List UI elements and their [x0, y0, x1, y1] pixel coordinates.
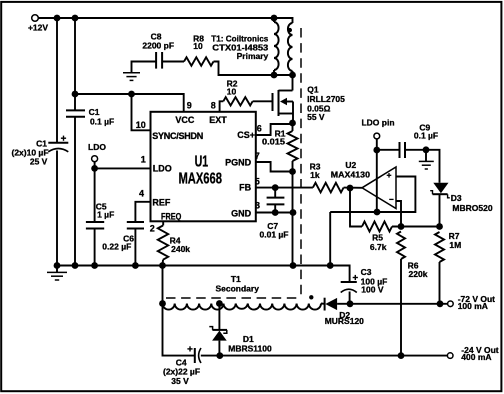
svg-text:LDO: LDO [153, 164, 172, 174]
svg-text:VCC: VCC [175, 115, 195, 125]
svg-text:0.1 µF: 0.1 µF [414, 131, 438, 141]
svg-text:Q1: Q1 [307, 84, 319, 94]
svg-text:2: 2 [150, 224, 155, 234]
svg-text:7: 7 [255, 151, 260, 161]
svg-text:6.7k: 6.7k [370, 242, 387, 252]
svg-text:400 mA: 400 mA [461, 352, 491, 362]
svg-text:MBRS1100: MBRS1100 [228, 344, 272, 354]
svg-text:FREQ: FREQ [161, 211, 181, 221]
svg-text:1M: 1M [449, 240, 461, 250]
svg-text:REF: REF [152, 197, 171, 207]
svg-text:(2x)22 µF: (2x)22 µF [163, 366, 200, 376]
svg-text:0.01 µF: 0.01 µF [260, 229, 289, 239]
svg-text:LDO: LDO [88, 142, 106, 152]
svg-text:10: 10 [136, 120, 146, 130]
svg-text:MBRO520: MBRO520 [452, 203, 492, 213]
svg-text:SYNC/SHDN: SYNC/SHDN [152, 131, 203, 141]
svg-text:100 V: 100 V [361, 285, 384, 295]
svg-text:55 V: 55 V [307, 112, 325, 122]
svg-text:10: 10 [193, 41, 203, 51]
svg-text:IRLL2705: IRLL2705 [307, 94, 345, 104]
svg-text:GND: GND [231, 208, 252, 218]
svg-text:+12V: +12V [28, 22, 48, 32]
svg-text:D3: D3 [451, 193, 462, 203]
svg-text:MAX4130: MAX4130 [331, 169, 370, 179]
svg-text:4: 4 [139, 189, 144, 199]
svg-text:10: 10 [227, 86, 237, 96]
svg-text:CS+: CS+ [237, 130, 255, 140]
svg-text:1k: 1k [310, 170, 320, 180]
svg-text:Primary: Primary [237, 51, 269, 61]
svg-text:35 V: 35 V [171, 376, 189, 386]
svg-text:1: 1 [141, 155, 146, 165]
svg-text:100 mA: 100 mA [458, 301, 488, 311]
svg-text:240k: 240k [171, 244, 190, 254]
svg-text:6: 6 [257, 124, 262, 134]
svg-text:5: 5 [255, 177, 260, 187]
svg-text:FB: FB [239, 183, 251, 193]
svg-text:MURS120: MURS120 [325, 316, 364, 326]
svg-text:0.1 µF: 0.1 µF [90, 117, 114, 127]
svg-text:9: 9 [187, 101, 192, 111]
svg-text:Secondary: Secondary [215, 283, 259, 293]
svg-text:EXT: EXT [209, 115, 227, 125]
svg-text:0.22 µF: 0.22 µF [102, 241, 131, 251]
svg-text:2200 pF: 2200 pF [142, 41, 174, 51]
svg-text:C1: C1 [89, 107, 100, 117]
svg-text:MAX668: MAX668 [178, 171, 222, 188]
svg-text:25 V: 25 V [30, 156, 48, 166]
svg-text:220k: 220k [409, 269, 428, 279]
svg-text:PGND: PGND [225, 158, 252, 168]
svg-text:LDO pin: LDO pin [361, 117, 394, 127]
svg-text:U1: U1 [195, 153, 209, 170]
svg-text:0.015: 0.015 [262, 137, 285, 147]
svg-text:3: 3 [255, 201, 260, 211]
svg-text:1 µF: 1 µF [97, 210, 114, 220]
svg-text:8: 8 [211, 101, 216, 111]
svg-text:R5: R5 [372, 232, 383, 242]
